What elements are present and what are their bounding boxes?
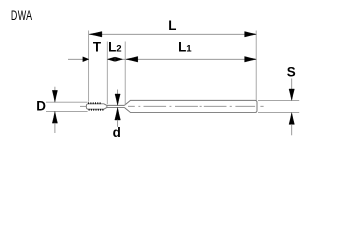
- svg-text:DWA: DWA: [11, 9, 33, 23]
- dimension D top arrow: [52, 90, 57, 102]
- svg-text:S: S: [287, 65, 296, 80]
- dimension L left arrow: [89, 32, 102, 38]
- centerline left stub: [80, 105, 87, 107]
- dimension D extension lines: [46, 102, 88, 111]
- dimension L1 right arrow: [245, 56, 257, 62]
- dimension T tail line: [68, 58, 89, 60]
- dimension S extension lines: [258, 100, 299, 112]
- tool head teeth top: [88, 102, 101, 104]
- dimension D bottom arrow: [52, 111, 57, 123]
- tool head (burr) body: [86, 104, 107, 109]
- svg-text:d: d: [113, 125, 121, 140]
- dimension L right arrow: [245, 32, 257, 38]
- dimension D bottom leader: [54, 123, 56, 133]
- dimension L2 right arrow: [115, 57, 122, 61]
- tool head teeth bottom: [88, 109, 103, 111]
- dimension d bottom arrow: [115, 108, 121, 120]
- dimension S bottom leader: [291, 124, 293, 135]
- extension line at head start x=89: [88, 31, 90, 102]
- svg-text:L: L: [168, 18, 176, 33]
- centerline: [128, 105, 264, 107]
- dimension d bottom leader: [117, 120, 119, 127]
- dimension L1 left arrow: [126, 56, 138, 62]
- svg-text:T: T: [93, 40, 102, 55]
- dimension d top leader: [117, 90, 119, 95]
- tool shank: [124, 100, 257, 112]
- tool neck: [107, 105, 125, 107]
- svg-text:D: D: [36, 99, 46, 114]
- dimension T arrow (outside, pointing right): [83, 57, 89, 62]
- dimension L line: [89, 33, 257, 35]
- dimension D top leader: [54, 87, 56, 91]
- extension line at shank end x=256.2: [255, 31, 257, 101]
- dimension S top arrow: [289, 89, 294, 100]
- extension line at head end x=107.3: [106, 42, 108, 105]
- dimension d top arrow: [115, 94, 120, 105]
- dimension S bottom arrow: [289, 113, 294, 125]
- dimension L2 left arrow: [108, 57, 115, 61]
- dimension L1 line: [125, 58, 256, 60]
- dimension S top leader: [291, 79, 293, 90]
- dimension L2 line: [107, 58, 125, 60]
- extension line at neck end x=125.2: [124, 42, 126, 106]
